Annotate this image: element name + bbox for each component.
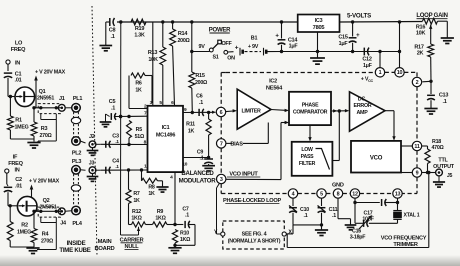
connector PL4 — [65, 206, 83, 227]
svg-text:R3: R3 — [41, 126, 48, 132]
potentiometer R12 carrier null — [131, 209, 145, 235]
svg-text:.01: .01 — [15, 184, 22, 190]
svg-text:1K: 1K — [188, 128, 195, 134]
wire (pin 4 drop to C10) — [292, 198, 294, 206]
wire — [422, 80, 432, 83]
svg-text:1K: 1K — [148, 191, 155, 197]
pin circle 12 — [350, 189, 359, 198]
svg-text:J5: J5 — [447, 173, 453, 179]
svg-text:TTL: TTL — [438, 157, 448, 163]
wire (IC1 pin 3) — [152, 22, 154, 106]
wire (DC amp to VCO) — [385, 111, 396, 141]
svg-text:Q2: Q2 — [43, 198, 50, 204]
svg-text:+ 9V: + 9V — [248, 44, 259, 50]
pin circle 2 — [412, 77, 421, 86]
pin circle 6 — [216, 107, 225, 116]
label CARRIER NULL — [120, 237, 144, 250]
pin circle 3 — [217, 174, 226, 183]
svg-text:C14: C14 — [288, 38, 299, 44]
pin circle 4 — [288, 189, 297, 198]
svg-text:R15: R15 — [195, 73, 205, 79]
svg-text:R19: R19 — [135, 26, 145, 32]
crystal XTAL 1 — [393, 203, 420, 224]
ground (IC3) — [310, 32, 325, 64]
pin circle 11 — [412, 141, 421, 150]
pin circle 1 — [375, 68, 384, 77]
resistor R19 — [131, 19, 146, 38]
capacitor C7 — [175, 206, 195, 245]
svg-text:1K: 1K — [133, 198, 140, 204]
node LO FREQ IN terminal — [6, 41, 26, 72]
svg-text:9V: 9V — [198, 44, 205, 50]
svg-text:13: 13 — [395, 191, 401, 197]
pin 10 — [182, 162, 187, 168]
pin 5 — [159, 100, 162, 106]
svg-text:470Ω: 470Ω — [431, 145, 444, 151]
pin 8 — [144, 139, 147, 145]
svg-text:PL4: PL4 — [72, 221, 83, 227]
capacitor C11 — [318, 206, 338, 230]
svg-text:5-VOLTS: 5-VOLTS — [347, 13, 371, 20]
ground (Q2 bias) — [26, 248, 39, 254]
svg-text:R5: R5 — [136, 127, 143, 133]
svg-text:8: 8 — [337, 191, 340, 197]
cable PL1-PL2 — [71, 112, 80, 137]
svg-text:C15: C15 — [338, 35, 348, 41]
regulator IC3 7805 — [298, 15, 340, 33]
ground (R8) — [156, 187, 168, 192]
wire (pin 8 to ground) — [338, 198, 351, 224]
vco box — [351, 141, 401, 173]
resistor R17 — [414, 44, 433, 81]
wire (phase comp out) — [331, 109, 349, 113]
svg-text:NE564: NE564 — [266, 86, 283, 92]
ground (R16) — [441, 38, 454, 44]
wire 9V rail — [117, 21, 298, 23]
svg-text:LO: LO — [15, 41, 23, 47]
svg-text:1KΩ: 1KΩ — [155, 216, 166, 222]
svg-text:(NORMALLY A SHORT): (NORMALLY A SHORT) — [228, 238, 281, 244]
label BALANCED MODULATOR — [179, 170, 217, 184]
svg-text:MAIN: MAIN — [98, 239, 112, 245]
wire (pin 8 line) — [101, 143, 148, 146]
svg-text:+ V 20V MAX: + V 20V MAX — [35, 70, 66, 76]
svg-text:+ V 20V MAX: + V 20V MAX — [29, 179, 60, 185]
svg-text:LOOP GAIN: LOOP GAIN — [416, 13, 447, 19]
svg-text:R1: R1 — [15, 118, 22, 124]
wire (pin 5 drop to C11) — [321, 198, 323, 206]
svg-text:MC1496: MC1496 — [156, 133, 175, 139]
wire (pin 9 line) — [183, 111, 213, 115]
wire (pin 12 drop) — [353, 198, 356, 204]
connector J3 — [89, 161, 101, 174]
capacitor C8 — [106, 18, 123, 45]
svg-text:.01: .01 — [15, 78, 22, 84]
ground (J5) — [433, 176, 445, 187]
svg-text:.1: .1 — [332, 213, 336, 219]
svg-text:5: 5 — [320, 191, 323, 197]
svg-text:POWER: POWER — [209, 27, 231, 33]
svg-text:270Ω: 270Ω — [41, 239, 54, 245]
IC2 dashed border top — [221, 71, 417, 73]
resistor R8 — [142, 170, 163, 197]
pin 4 — [170, 174, 173, 180]
svg-text:.1: .1 — [200, 156, 204, 162]
svg-text:PHASE-LOCKED LOOP: PHASE-LOCKED LOOP — [223, 198, 281, 204]
see fig 4 box (dashed) — [223, 221, 284, 249]
wire — [8, 95, 16, 98]
wire (pin 1 line) — [101, 168, 148, 171]
IC2 dashed border right — [416, 72, 418, 193]
wire (X node riser) — [286, 225, 293, 234]
shielded cable (Q1 to J1) — [38, 104, 61, 143]
wire (pin6 to limiter) — [226, 109, 237, 112]
svg-text:PASS: PASS — [301, 154, 315, 160]
svg-text:C9: C9 — [197, 149, 204, 155]
svg-text:S1: S1 — [212, 55, 218, 61]
ground (C9) — [202, 166, 215, 171]
pin circle 10 — [395, 68, 404, 77]
svg-text:COMPARATOR: COMPARATOR — [293, 110, 328, 116]
ground (J3) — [87, 173, 99, 181]
svg-text:B1: B1 — [251, 36, 258, 42]
resistor R13 — [148, 20, 166, 106]
pin 2 — [144, 103, 147, 109]
svg-text:12: 12 — [352, 191, 358, 197]
wire — [8, 204, 19, 207]
svg-text:GND: GND — [332, 183, 344, 189]
svg-text:R8: R8 — [148, 184, 155, 190]
capacitor C4 — [106, 159, 120, 174]
ground (C8) — [99, 46, 112, 51]
capacitor C5 — [106, 99, 149, 122]
wire (pin10 riser) — [398, 20, 401, 67]
trimmer capacitor C16 — [350, 203, 398, 241]
connector J2 — [89, 134, 101, 148]
svg-text:J3: J3 — [89, 161, 95, 167]
resistor R4 — [31, 211, 54, 247]
svg-text:1.3K: 1.3K — [134, 33, 145, 39]
svg-text:Q1: Q1 — [39, 89, 46, 95]
svg-text:MODULATOR: MODULATOR — [179, 178, 217, 185]
svg-text:C6: C6 — [196, 94, 203, 100]
resistor R2 — [7, 206, 31, 247]
ground (pin 8) — [345, 225, 357, 230]
svg-text:2: 2 — [416, 80, 419, 86]
dc error amp (triangle) — [350, 92, 386, 131]
capacitor C13 — [427, 81, 448, 108]
power +V 20V MAX (Q2 drain) — [29, 179, 60, 197]
svg-text:2K: 2K — [417, 51, 424, 57]
node Y — [214, 184, 225, 237]
svg-text:BIAS: BIAS — [230, 141, 243, 147]
resistor R11 — [186, 112, 211, 157]
label VCO FREQUENCY TRIMMER — [381, 235, 427, 248]
svg-text:1KΩ: 1KΩ — [180, 237, 191, 243]
svg-text:R7: R7 — [133, 191, 140, 197]
svg-text:.1: .1 — [304, 213, 308, 219]
svg-text:FILTER: FILTER — [299, 161, 316, 167]
resistor R6 — [129, 73, 152, 109]
power +V 20V MAX (Q1 drain) — [34, 70, 65, 97]
pin circle 13 — [393, 189, 402, 198]
pin circle 5 — [317, 189, 326, 198]
op-amp IC1 MC1496 box — [148, 106, 184, 172]
IC2 dashed border bottom — [221, 193, 417, 195]
svg-text:VCO FREQUENCY: VCO FREQUENCY — [381, 235, 427, 241]
capacitor C17 — [355, 199, 398, 223]
svg-text:270Ω: 270Ω — [39, 133, 52, 139]
svg-text:IC1: IC1 — [162, 125, 170, 131]
svg-text:C5: C5 — [109, 99, 116, 105]
label 5-VOLTS — [347, 13, 371, 20]
capacitor C9 — [197, 149, 213, 165]
label POWER — [209, 27, 231, 33]
svg-text:1KΩ: 1KΩ — [131, 216, 142, 222]
svg-text:4: 4 — [292, 191, 295, 197]
ground (C13) — [424, 109, 437, 115]
svg-text:1μF: 1μF — [289, 44, 299, 50]
svg-text:TIME KUBE: TIME KUBE — [59, 247, 90, 254]
wire (Q1 source) — [32, 97, 38, 110]
resistor R1 — [8, 97, 29, 140]
wire (VCO to pin 11) — [401, 145, 412, 147]
shielded cable (Q2 to J4) — [37, 207, 61, 249]
svg-text:C12: C12 — [362, 56, 372, 62]
svg-text:9: 9 — [416, 170, 419, 176]
svg-text:AMP: AMP — [356, 110, 368, 116]
ground (J2) — [87, 148, 99, 156]
resistor R3 — [31, 108, 52, 142]
svg-text:SEE FIG. 4: SEE FIG. 4 — [242, 231, 267, 237]
capacitor C6 — [196, 94, 216, 116]
ground (Q1 bias) — [27, 143, 40, 149]
svg-text:IN: IN — [15, 60, 20, 66]
connector PL1 — [65, 96, 82, 112]
svg-text:ERROR: ERROR — [354, 103, 372, 109]
pin circle 7 — [217, 139, 226, 148]
svg-text:PHASE: PHASE — [302, 103, 319, 109]
svg-text:R11: R11 — [186, 122, 195, 128]
svg-text:VCO: VCO — [370, 155, 383, 161]
wire (pin1 drop) — [379, 52, 381, 68]
wire — [378, 50, 401, 53]
svg-text:J1: J1 — [59, 96, 65, 102]
label TTL OUTPUT — [433, 157, 455, 170]
svg-text:6: 6 — [220, 110, 223, 116]
svg-text:C17: C17 — [364, 210, 373, 216]
resistor R18 — [422, 139, 445, 173]
svg-text:C2: C2 — [15, 177, 22, 183]
connector J1 — [58, 96, 65, 111]
svg-text:10: 10 — [397, 70, 403, 76]
svg-text:IC2: IC2 — [269, 78, 277, 84]
svg-text:R14: R14 — [178, 31, 189, 37]
wire (null wiper to bias) — [119, 22, 139, 235]
svg-text:1: 1 — [379, 70, 382, 76]
svg-text:.1: .1 — [185, 213, 189, 219]
label PHASE-LOCKED LOOP — [223, 198, 281, 204]
cable PL3-PL4 — [71, 174, 80, 206]
svg-text:LOW: LOW — [301, 147, 313, 153]
svg-text:VCO INPUT: VCO INPUT — [229, 171, 258, 177]
svg-text:1MEG: 1MEG — [17, 230, 31, 236]
potentiometer R16 — [416, 18, 447, 44]
svg-text:3: 3 — [220, 177, 223, 183]
svg-text:FREQ: FREQ — [11, 47, 26, 53]
connector J4 — [58, 208, 67, 227]
wire 5V rail — [340, 21, 423, 24]
svg-text:1μF: 1μF — [339, 41, 349, 47]
limiter (triangle) — [237, 89, 271, 129]
svg-text:J2: J2 — [89, 134, 95, 140]
svg-text:200Ω: 200Ω — [195, 80, 208, 86]
capacitor C14 — [275, 20, 298, 53]
svg-text:CC: CC — [368, 79, 373, 83]
svg-text:XTAL 1: XTAL 1 — [404, 212, 420, 218]
pin 7 — [144, 110, 147, 116]
svg-text:PL1: PL1 — [73, 96, 83, 102]
ground (C5) — [100, 122, 112, 127]
svg-text:1K: 1K — [135, 88, 142, 94]
svg-text:PL3: PL3 — [72, 159, 82, 165]
svg-text:7805: 7805 — [313, 25, 325, 31]
svg-text:51Ω: 51Ω — [135, 134, 145, 140]
wire (LPF to DC amp) — [332, 109, 341, 160]
resistor R9 — [146, 209, 176, 227]
label +Vcc — [361, 77, 374, 84]
capacitor C15 — [338, 20, 360, 53]
transistor Q2 — [17, 196, 56, 216]
IC2 dashed border left — [220, 73, 222, 194]
svg-text:.1: .1 — [442, 99, 446, 105]
svg-text:LIMITER: LIMITER — [241, 108, 261, 114]
label LOOP GAIN — [416, 13, 447, 19]
wire (pin 4 drop) — [173, 172, 176, 226]
svg-text:1MEG: 1MEG — [14, 125, 28, 131]
wire (X to TTL node) — [287, 173, 429, 248]
resistor R14 — [170, 20, 191, 106]
battery B1 — [235, 36, 282, 56]
resistor R7 — [126, 170, 140, 225]
svg-text:OUTPUT: OUTPUT — [433, 164, 455, 170]
connector PL3 — [72, 159, 86, 174]
capacitor C1 — [4, 72, 22, 97]
pin 1 — [144, 163, 147, 169]
ground (R10) — [168, 248, 181, 254]
svg-text:10K: 10K — [416, 31, 426, 37]
svg-text:R10: R10 — [180, 230, 189, 236]
label MAIN BOARD — [94, 239, 114, 252]
svg-text:PL2: PL2 — [72, 151, 82, 157]
ground (C11) — [315, 230, 328, 236]
label GND — [332, 183, 344, 189]
switch S1 — [192, 40, 235, 61]
capacitor C10 — [289, 206, 309, 225]
wire (pin 9 to J5) — [422, 171, 436, 174]
phase comparator box — [289, 92, 331, 125]
svg-text:+: + — [235, 45, 239, 52]
svg-text:FREQ: FREQ — [8, 161, 23, 167]
node IF FREQ IN terminal — [5, 154, 24, 186]
label IC2 NE564 — [266, 78, 283, 91]
svg-text:C8: C8 — [109, 28, 116, 34]
resistor R15 — [189, 52, 208, 113]
resistor R5 — [127, 121, 145, 145]
wire (pin 10 line) — [183, 156, 210, 159]
wire (pin 13 drop) — [396, 198, 399, 204]
pin circle 9 — [412, 168, 421, 177]
node 9V / switch feed — [190, 20, 205, 53]
svg-text:DC: DC — [358, 97, 366, 103]
label INSIDE TIME KUBE — [59, 240, 90, 254]
pin 6 — [171, 100, 174, 106]
capacitor C12 — [362, 48, 372, 69]
wire battery return — [282, 51, 381, 53]
svg-text:1μF: 1μF — [363, 63, 373, 69]
pin 9 — [184, 107, 187, 113]
svg-text:INSIDE: INSIDE — [67, 240, 86, 247]
svg-text:BOARD: BOARD — [94, 246, 114, 252]
svg-text:.1: .1 — [111, 106, 115, 112]
wire (VCO to pin 9) — [401, 172, 412, 174]
svg-text:11: 11 — [414, 144, 419, 150]
svg-text:R18: R18 — [432, 139, 441, 145]
svg-text:7: 7 — [220, 141, 223, 147]
svg-text:R2: R2 — [21, 223, 28, 229]
svg-text:ON: ON — [227, 55, 235, 61]
pin 3 — [150, 100, 153, 106]
svg-text:2N5951: 2N5951 — [37, 95, 54, 101]
wire (limiter out) — [271, 109, 289, 112]
label BIAS + wire — [226, 123, 268, 148]
svg-text:IC3: IC3 — [315, 18, 323, 24]
wire — [10, 138, 34, 140]
svg-text:IN: IN — [14, 167, 19, 173]
capacitor C3 — [106, 134, 120, 148]
node X — [282, 229, 292, 236]
svg-text:3-18pF: 3-18pF — [350, 235, 367, 241]
wire (Q2 source) — [32, 206, 38, 213]
connector PL2 — [72, 137, 86, 157]
svg-text:2N5951: 2N5951 — [39, 205, 56, 211]
wire — [10, 246, 34, 248]
svg-text:R9: R9 — [157, 209, 164, 215]
wire — [293, 223, 323, 226]
svg-text:OFF: OFF — [221, 41, 232, 47]
low pass filter box — [292, 142, 333, 176]
svg-text:200Ω: 200Ω — [177, 38, 190, 44]
resistor R10 — [172, 230, 191, 248]
svg-text:C16: C16 — [352, 228, 361, 234]
svg-text:10: 10 — [182, 162, 187, 168]
capacitor C2 — [4, 177, 22, 206]
svg-text:TRIMMER: TRIMMER — [393, 242, 418, 248]
board divider (dashed) — [92, 6, 97, 256]
svg-text:R6: R6 — [135, 81, 142, 87]
svg-text:C7: C7 — [182, 206, 189, 212]
pin circle 8 — [333, 189, 342, 198]
svg-text:R12: R12 — [132, 209, 141, 215]
svg-text:C13: C13 — [439, 93, 449, 99]
label VCO INPUT + wire — [226, 121, 289, 180]
svg-text:.1: .1 — [110, 34, 114, 40]
wire (phase comp to LPF) — [308, 125, 311, 141]
svg-text:.1: .1 — [199, 100, 203, 106]
connector J5 — [436, 169, 453, 179]
transistor Q1 — [15, 87, 54, 107]
